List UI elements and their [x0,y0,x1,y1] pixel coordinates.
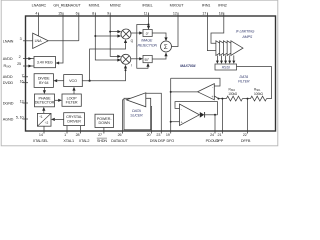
op-amp data filter [198,84,215,100]
pin 24 PDOUT wire [214,115,216,134]
svg-text:17: 17 [202,12,206,16]
svg-text:27: 27 [98,133,102,137]
wire filter output [171,91,198,93]
svg-text:3.4V REG: 3.4V REG [37,61,53,65]
svg-text:DIVIDE: DIVIDE [38,77,50,81]
svg-text:SLICER: SLICER [130,114,143,118]
wire MXIN2 to mixer Q [110,31,119,33]
wire phase detector to loop filter [55,99,59,101]
arrow VCO into divider [53,79,57,82]
pin 14 XTALSEL wire [43,126,45,133]
svg-text:FILTER: FILTER [66,101,78,105]
svg-text:LNAIN: LNAIN [3,39,14,43]
svg-text:DSP: DSP [158,139,166,143]
phase detector box [35,94,55,107]
svg-text:24: 24 [210,133,214,137]
node DFFB [247,98,249,100]
svg-text:21: 21 [218,133,222,137]
divide by 64 box [34,74,53,88]
data slicer box [124,98,151,130]
arrow MXIN2 into mixer I [117,55,121,58]
svg-text:18: 18 [219,12,223,16]
wire div12 to phase detector [43,110,45,113]
pin 17 IFIN1 wire [207,13,216,51]
arrow phase det into loop filter [58,99,62,102]
pin 25 HVIN wire [23,65,34,67]
svg-text:IFIN1: IFIN1 [202,4,211,8]
svg-text:4: 4 [35,12,37,16]
wire peak detector feedback [175,102,218,115]
power-down box [95,114,114,127]
svg-text:+: + [181,121,183,125]
wire MXIN1 to mixer Q [95,35,119,37]
wire IRSEL branch to 90deg box [137,25,149,69]
resistor RSK1 [251,96,267,101]
pin 16 DVDD stub [23,82,29,84]
svg-text:DSN: DSN [150,139,158,143]
svg-text:÷1: ÷1 [39,115,43,119]
svg-text:-: - [181,108,182,112]
wire 0deg box to summer [152,33,166,40]
arrow loop filter into VCO [72,87,75,91]
svg-text:3: 3 [20,37,22,41]
0deg phase box [143,30,152,37]
crystal driver box [64,113,85,126]
pin 11 IRSEL wire [148,13,150,29]
wire VCO to divider [57,80,64,82]
svg-text:REJECTION: REJECTION [137,44,157,48]
svg-text:DGND: DGND [3,101,14,105]
node MXIN1/Q [94,35,96,37]
svg-text:6: 6 [76,12,78,16]
svg-text:AMPS: AMPS [241,35,252,39]
LNA amplifier [33,33,49,48]
junction dots [89,24,249,123]
svg-text:23: 23 [156,133,160,137]
pin 3 LNAIN wire [23,40,33,42]
VCO box [64,75,83,87]
svg-text:5, 10: 5, 10 [16,116,24,120]
pin 23 DSP wire from slicer positive input [145,93,161,133]
diode peak detector [200,112,205,118]
svg-text:MIXOUT: MIXOUT [170,4,185,8]
pin 22 DFFB wire [247,99,249,134]
node VCO tap [89,80,91,82]
arrow IRSEL into 0deg box [147,26,150,30]
wire LNA output to LNAOUT [48,40,79,42]
svg-text:BY 64: BY 64 [39,81,49,85]
svg-text:LNASRC: LNASRC [32,4,47,8]
wire diode output node [205,114,218,116]
pin 18 IFIN2 wire [211,13,224,44]
arrow div12 into phase detector [42,107,45,111]
arrow 0deg into summer [164,37,167,41]
arrow mixer I into 90deg box [139,57,143,60]
node PDOUT [214,114,216,116]
node MXIN2/Q [109,31,111,33]
svg-text:OPP: OPP [216,139,224,143]
svg-text:AVDD: AVDD [3,57,13,61]
arrow into reg from HVIN [28,65,32,68]
loop filter box [62,94,81,106]
RSSI box [215,64,237,70]
pin 6 LNAOUT wire [78,13,80,41]
svg-text:IMAGE: IMAGE [141,38,153,42]
svg-text:28: 28 [76,133,80,137]
pin 28 XTAL2 wire [80,126,82,134]
svg-text:DRIVER: DRIVER [67,120,81,124]
pin 9 MXIN2 wire [110,13,119,57]
svg-text:100kΩ: 100kΩ [228,92,238,96]
node LO I branch [125,69,127,71]
svg-text:DFO: DFO [167,139,175,143]
pin 21 OPP wire [221,99,223,134]
mixer I [121,54,131,64]
arrow crystal driver into div12 [51,118,55,121]
arrow into reg from GN_REG [56,62,60,65]
wire mixer Q out to 0deg box [131,32,140,34]
pin 20 DSN wire from slicer negative input [145,106,151,133]
pin 2 AVDD wire [23,58,34,60]
IF limiting amps [216,41,243,56]
mixer Q [121,29,131,39]
op-amp peak detector [180,104,200,126]
svg-text:25: 25 [17,62,21,66]
arrow divider into phase detector [43,90,46,94]
svg-text:8: 8 [92,12,94,16]
wire crystal driver to div12 [55,118,64,120]
pin 8 MXIN1 wire [95,13,119,61]
svg-text:AVDD: AVDD [3,75,13,79]
chip body MAX7034 [26,16,276,131]
arrow 90deg into summer [164,52,167,56]
arrow MXIN1 into mixer Q [117,34,121,37]
wire RSSI to data filter [237,67,272,99]
arrow mixer Q into 0deg box [139,31,143,34]
svg-text:VCO: VCO [69,79,77,83]
summer [161,41,172,52]
svg-text:XTAL2: XTAL2 [79,139,90,143]
resistor RSK2 [226,96,242,101]
node filter minus [170,91,172,93]
arrow MXIN2 into mixer Q [117,30,121,33]
svg-text:20: 20 [147,133,151,137]
wire resistor segment node1 [243,98,251,100]
node filter input [218,98,220,100]
pin 15 GN_REG wire [57,13,64,64]
node IRSEL branch [148,24,150,26]
pin 7 AVDD stub [23,76,29,78]
svg-text:26: 26 [118,133,122,137]
3.4V regulator box [34,57,56,68]
svg-text:19: 19 [166,133,170,137]
wire divider to phase detector [43,87,45,90]
node peak det plus [170,121,172,123]
comparator data slicer [126,93,146,107]
svg-text:MXIN1: MXIN1 [89,4,100,8]
wire IF amps to RSSI arrows [216,55,218,61]
wire resistor segment node2 [219,98,227,100]
svg-text:15: 15 [58,12,62,16]
svg-text:7: 7 [22,73,24,77]
svg-text:11: 11 [144,12,148,16]
wire mixer I out to 90deg box [131,58,140,60]
svg-text:2: 2 [19,55,21,59]
svg-text:12: 12 [173,12,177,16]
svg-text:XTAL1: XTAL1 [63,139,74,143]
node OPP [221,98,223,100]
wire 90deg box to summer [152,53,166,59]
pin 12 MIXOUT wire [172,13,179,47]
svg-text:IF LIMITING: IF LIMITING [236,30,255,34]
arrow into reg from AVDD [28,57,32,60]
wire filter plus lead to node [214,96,218,99]
svg-text:+: + [211,95,213,99]
pin 19 DFO rail wire [170,78,172,133]
arrow LO into mixer Q [124,39,127,43]
svg-text:DVDD: DVDD [3,81,14,85]
svg-text:FILTER: FILTER [238,80,250,84]
pin 26 DATAOUT wire from slicer [123,100,127,134]
svg-text:DFFB: DFFB [241,139,251,143]
svg-text:-: - [212,86,213,90]
wire LO to mixer Q [90,42,126,81]
svg-text:÷2: ÷2 [45,121,49,125]
svg-text:LNAOUT: LNAOUT [66,4,81,8]
svg-text:1: 1 [64,133,66,137]
arrows IF amps into RSSI [216,61,219,64]
svg-text:9: 9 [107,12,109,16]
svg-text:DATA: DATA [132,109,141,113]
svg-text:DETECTOR: DETECTOR [35,101,55,105]
svg-text:IFIN2: IFIN2 [218,4,227,8]
svg-text:100kΩ: 100kΩ [254,92,264,96]
svg-text:LNA: LNA [35,39,43,43]
pin 1 XTAL1 wire [66,126,68,134]
svg-text:Σ: Σ [164,44,168,51]
svg-text:DOWN: DOWN [99,121,111,125]
wire filter feedback loop [171,78,220,86]
svg-text:IRSEL: IRSEL [142,4,152,8]
wire VCO output tap [82,67,125,81]
arrow MXIN1 into mixer I [117,58,121,61]
divide 1 or 2 box [37,113,51,126]
svg-text:13: 13 [20,100,24,104]
arrow LO into mixer I [124,65,127,69]
wire loop filter to VCO [73,91,75,95]
pin 13 DGND stub [23,102,29,104]
svg-text:RSSI: RSSI [222,66,230,70]
svg-text:MXIN2: MXIN2 [110,4,121,8]
pin 27 SHDN wire [103,128,105,134]
outer frame [1,0,278,146]
svg-text:MAX7034: MAX7034 [180,64,195,68]
svg-text:DATAOUT: DATAOUT [111,139,128,143]
svg-text:SHDN: SHDN [97,139,108,143]
90deg phase box [143,55,152,62]
arrowheads [28,26,235,121]
arrow IRSEL into 90deg box [146,63,149,67]
wire peak detector plus lead [171,121,180,123]
svg-text:AGND: AGND [3,117,14,121]
pin 4 LNASRC wire [38,13,40,46]
svg-text:16: 16 [20,79,24,83]
svg-text:14: 14 [39,133,43,137]
svg-text:XTALSEL: XTALSEL [33,139,48,143]
pins 5,10 AGND stub [23,118,29,120]
svg-text:22: 22 [243,133,247,137]
